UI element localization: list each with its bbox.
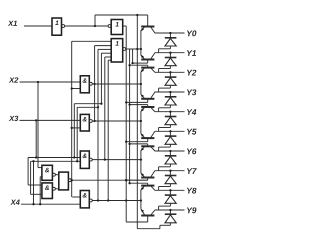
diode VD3 anode jog <box>159 87 171 89</box>
junction <box>125 179 127 181</box>
junction <box>169 189 171 191</box>
NAND G1 <box>80 151 89 168</box>
transistor T10 emitter <box>141 209 145 216</box>
wire Y4 <box>155 111 185 113</box>
wire emitter <box>140 160 142 174</box>
diode VD8 cathode stub <box>169 171 171 176</box>
junction <box>39 203 41 205</box>
wire E1 out <box>55 174 59 176</box>
junction <box>35 156 37 158</box>
wire E2 out <box>55 188 59 190</box>
diode VD9 cathode stub <box>169 190 171 195</box>
wire emitter <box>140 151 142 160</box>
bubble <box>89 158 92 161</box>
junction <box>93 83 95 85</box>
junction <box>128 182 130 184</box>
diode VD6 cathode bar <box>165 135 177 137</box>
buffer F <box>59 172 69 190</box>
transistor T9 emitter arrow <box>141 187 144 191</box>
diode VD8 anode wire <box>169 184 171 187</box>
transistor T8 emitter <box>141 173 145 177</box>
wire rail <box>136 15 138 229</box>
diode VD7 cathode stub <box>169 151 171 156</box>
wire C input <box>101 52 111 54</box>
label Y8 <box>187 188 196 194</box>
junction <box>140 158 142 160</box>
diode VD5 anode drop <box>158 128 160 132</box>
wire G1 in2 <box>31 160 81 162</box>
diode VD3 cathode stub <box>169 72 171 77</box>
inverter A <box>52 18 62 35</box>
junction <box>169 150 171 152</box>
transistor T5 base stub <box>147 105 149 107</box>
junction <box>125 101 127 103</box>
transistor T8 collector <box>150 171 155 178</box>
diode VD6 anode wire <box>169 144 171 147</box>
label Y9 <box>187 207 196 213</box>
wire emitter <box>140 190 142 201</box>
diode VD3 anode wire <box>169 85 171 88</box>
wire emitter <box>140 84 142 94</box>
diode VD4 cathode bar <box>165 96 177 98</box>
transistor T6 collector <box>150 131 155 138</box>
diode VD2 cathode stub <box>169 53 171 58</box>
wire bus3 vertical <box>132 49 134 63</box>
diode VD10 anode drop <box>159 225 161 228</box>
diode VD8 anode jog <box>159 186 171 188</box>
wire C input <box>108 59 111 61</box>
label Y7 <box>187 168 197 174</box>
transistor T7 base stub <box>147 144 149 146</box>
wire riser <box>30 161 32 194</box>
junction <box>71 127 73 129</box>
diode VD10 cathode stub <box>169 210 171 214</box>
diode VD10 anode jog <box>160 224 171 226</box>
label X2 <box>9 77 18 82</box>
diode VD6 anode drop <box>158 147 160 151</box>
junction <box>73 156 75 158</box>
wire emitter <box>140 49 142 55</box>
OR gate C <box>111 39 123 62</box>
transistor T6 base stub <box>147 138 149 142</box>
diode VD2 anode jog <box>159 68 171 70</box>
diode VD1 cathode bar <box>165 37 177 39</box>
junction <box>71 179 73 181</box>
wire G1 in1 <box>28 157 80 159</box>
diode VD2 triangle <box>165 58 176 66</box>
junction <box>125 141 127 143</box>
diode VD5 cathode stub <box>169 112 171 117</box>
label Y4 <box>187 109 196 115</box>
NAND G2 <box>80 191 89 208</box>
transistor T1 collector <box>150 27 155 34</box>
label Y5 <box>187 129 197 135</box>
wire <box>31 193 42 195</box>
diode VD5 anode jog <box>159 127 171 129</box>
transistor T9 emitter <box>141 186 145 190</box>
label X1 <box>8 21 17 26</box>
wire D1 in2 <box>72 88 80 90</box>
wire X2 riser <box>37 82 39 168</box>
bubble <box>89 82 92 85</box>
wire base feed <box>126 179 148 181</box>
junction <box>136 14 138 16</box>
wire bracket5 <box>107 60 109 200</box>
junction <box>94 25 96 27</box>
transistor T3 emitter <box>141 68 145 72</box>
transistor T10 emitter arrow <box>141 209 144 213</box>
label Y0 <box>187 30 196 36</box>
wire C input <box>98 48 111 50</box>
label X4 <box>10 200 19 205</box>
wire G2 out <box>91 200 140 202</box>
transistor T8 base stub <box>147 178 149 181</box>
diode VD1 anode wire <box>169 46 171 49</box>
junction <box>104 158 106 160</box>
bubble <box>62 25 65 28</box>
wire top rail <box>95 14 148 16</box>
diode VD6 triangle <box>165 137 176 145</box>
junction <box>125 179 127 181</box>
wire C input <box>95 45 112 47</box>
bubble <box>53 187 56 190</box>
diode VD5 triangle <box>165 117 176 125</box>
wire bracket1 <box>94 46 96 121</box>
junction <box>140 83 142 85</box>
diode VD9 triangle <box>165 196 176 204</box>
wire C out <box>126 48 141 50</box>
diode VD9 anode jog <box>159 205 171 207</box>
diode VD8 triangle <box>165 176 176 184</box>
diode VD3 cathode bar <box>165 76 177 78</box>
junction <box>169 209 171 211</box>
junction <box>169 91 171 93</box>
NAND D2 <box>80 114 89 131</box>
transistor T7 emitter <box>141 146 145 150</box>
junction <box>140 48 142 50</box>
wire <box>28 184 42 186</box>
transistor T1 emitter arrow <box>141 28 144 32</box>
wire X2 <box>20 81 81 83</box>
wire bracket2 <box>97 49 99 200</box>
diode VD8 anode drop <box>158 187 160 191</box>
diode VD1 cathode stub <box>169 33 171 38</box>
label Y6 <box>187 148 197 154</box>
wire Y2 <box>155 71 185 73</box>
transistor T2 base bar <box>141 59 154 61</box>
transistor T4 emitter <box>141 94 145 98</box>
wire B out <box>123 25 127 27</box>
wire A out <box>65 25 108 27</box>
transistor T10 emitter wire <box>140 201 142 209</box>
junction <box>71 87 73 89</box>
junction <box>169 130 171 132</box>
transistor T6 emitter <box>141 134 145 138</box>
wire T1 emitter <box>140 30 142 49</box>
wire X4 <box>21 203 80 205</box>
diode VD5 anode wire <box>169 125 171 128</box>
diode VD10 anode wire <box>169 223 171 226</box>
wire C in1 <box>72 40 112 42</box>
diode VD1 anode drop <box>158 49 160 53</box>
diode VD1 anode jog <box>159 48 171 50</box>
wire E1in2 riser <box>39 177 41 204</box>
diode VD2 anode drop <box>158 69 160 73</box>
wire F out / T8 base <box>70 179 148 181</box>
wire <box>38 167 42 169</box>
wire D1 out <box>91 83 140 85</box>
wire D2 out <box>91 120 140 122</box>
wire Y9 <box>155 209 185 211</box>
diode VD7 anode jog <box>159 166 171 168</box>
diode VD10 cathode bar <box>165 213 177 215</box>
wire bus2 vertical <box>129 49 131 183</box>
diode VD7 triangle <box>165 156 176 164</box>
label X3 <box>9 116 18 121</box>
transistor T7 emitter arrow <box>141 148 144 152</box>
diode VD2 cathode bar <box>165 57 177 59</box>
inverter B <box>111 20 123 35</box>
wire base feed <box>126 141 148 143</box>
transistor T3 base bar <box>141 67 154 69</box>
junction <box>169 52 171 54</box>
diode VD6 anode jog <box>159 146 171 148</box>
wire Y0 <box>155 32 185 34</box>
wire X1 lead <box>24 25 52 27</box>
junction <box>140 199 142 201</box>
junction <box>100 103 102 105</box>
junction <box>97 199 99 201</box>
wire X4 riser <box>33 161 35 204</box>
bubble <box>108 25 111 28</box>
diode VD2 anode wire <box>169 66 171 69</box>
transistor T1 base stub <box>147 15 149 27</box>
wire Y6 <box>155 150 185 152</box>
transistor T1 base bar <box>141 26 154 28</box>
transistor T5 collector <box>150 107 155 112</box>
junction <box>32 203 34 205</box>
wire X3 riser <box>35 120 37 157</box>
diode VD5 cathode bar <box>165 116 177 118</box>
transistor T2 collector <box>150 53 155 60</box>
wire G1 out <box>91 159 140 161</box>
transistor T3 emitter arrow <box>141 69 144 73</box>
transistor T10 base bar <box>141 215 154 217</box>
NAND E2 <box>42 183 53 199</box>
diode VD3 triangle <box>165 78 176 86</box>
wire bracket4 <box>104 57 106 160</box>
transistor T5 emitter arrow <box>141 108 144 112</box>
diode VD9 cathode bar <box>165 194 177 196</box>
junction <box>93 120 95 122</box>
diode VD4 anode jog <box>159 107 171 109</box>
diode VD8 cathode bar <box>165 175 177 177</box>
transistor T2 emitter arrow <box>141 55 144 59</box>
diode VD10 triangle <box>165 215 176 223</box>
wire G2 in1 <box>72 196 80 198</box>
wire Y1 <box>155 52 185 54</box>
diode VD7 anode drop <box>158 167 160 171</box>
wire C input <box>105 56 111 58</box>
wire <box>40 176 42 178</box>
transistor T5 emitter <box>141 107 145 111</box>
wire base feed <box>130 143 148 145</box>
diode VD3 anode drop <box>158 88 160 92</box>
wire bus1 vertical <box>125 26 127 222</box>
junction <box>169 32 171 34</box>
transistor T3 base stub <box>147 65 149 67</box>
wire T10 base feed <box>126 221 148 223</box>
junction <box>97 106 99 108</box>
junction <box>169 111 171 113</box>
transistor T4 emitter arrow <box>141 94 144 98</box>
transistor T8 emitter arrow <box>141 173 144 177</box>
transistor T5 base bar <box>141 106 154 108</box>
wire emitter <box>140 72 142 84</box>
label Y3 <box>187 89 196 95</box>
wire Y7 <box>155 170 185 172</box>
transistor T2 base stub <box>147 60 149 64</box>
NAND D1 <box>80 76 89 93</box>
junction <box>107 199 109 201</box>
diode VD4 anode wire <box>169 105 171 108</box>
wire F net vertical <box>71 41 73 197</box>
diode VD4 cathode stub <box>169 92 171 97</box>
transistor T4 collector <box>150 92 155 99</box>
wire Y5 <box>155 130 185 132</box>
junction <box>169 170 171 172</box>
transistor T6 emitter arrow <box>141 133 144 137</box>
transistor T8 base bar <box>141 177 154 179</box>
transistor T7 base bar <box>141 145 154 147</box>
diode VD6 cathode stub <box>169 131 171 136</box>
transistor T6 base bar <box>141 137 154 139</box>
junction <box>37 81 39 83</box>
diode VD9 anode wire <box>169 203 171 206</box>
transistor T10 base stub <box>147 216 149 223</box>
diode VD7 cathode bar <box>165 155 177 157</box>
wire bracket3 <box>100 53 102 103</box>
transistor T9 base stub <box>147 183 149 185</box>
bubble <box>53 173 56 176</box>
wire up <box>94 15 96 26</box>
bubble <box>89 199 92 202</box>
wire emitter <box>140 121 142 134</box>
wire <box>73 104 75 158</box>
junction <box>125 199 127 201</box>
bubble <box>69 179 72 182</box>
wire <box>76 107 78 161</box>
junction <box>128 103 130 105</box>
wire base feed <box>130 182 148 184</box>
junction <box>140 120 142 122</box>
wire base feed <box>126 101 148 103</box>
wire riser <box>27 158 29 186</box>
transistor T7 collector <box>150 146 155 151</box>
transistor T4 base stub <box>147 99 149 103</box>
wire mid link2 <box>77 106 98 108</box>
junction <box>136 48 138 50</box>
junction <box>128 143 130 145</box>
diode VD1 triangle <box>165 38 176 46</box>
wire D2 in2 <box>72 127 80 129</box>
wire mid link <box>74 103 101 105</box>
wire emitter <box>140 111 142 121</box>
NAND E1 <box>42 165 53 180</box>
wire X3 <box>20 119 81 121</box>
transistor T10 collector <box>150 210 155 216</box>
label Y1 <box>187 50 196 56</box>
transistor T9 base bar <box>141 185 154 187</box>
transistor T1 emitter <box>141 27 145 31</box>
junction <box>131 62 133 64</box>
junction <box>128 64 130 66</box>
label Y2 <box>187 70 196 76</box>
bubble <box>89 120 92 123</box>
wire bottom return <box>137 228 160 230</box>
transistor T2 emitter <box>141 55 145 59</box>
wire T3 base feed <box>130 64 148 66</box>
diode VD4 triangle <box>165 97 176 105</box>
transistor T9 collector <box>150 186 155 191</box>
wire base feed <box>130 104 148 106</box>
junction <box>169 71 171 73</box>
junction <box>35 119 37 121</box>
wire T2 base feed <box>133 62 148 64</box>
transistor T3 collector <box>150 68 155 73</box>
junction <box>32 160 34 162</box>
wire Y8 <box>155 189 185 191</box>
wire Y3 <box>155 91 185 93</box>
diode VD4 anode drop <box>158 108 160 112</box>
diode VD7 anode wire <box>169 164 171 167</box>
transistor T4 base bar <box>141 98 154 100</box>
bubble <box>123 48 126 51</box>
junction <box>76 160 78 162</box>
diode VD9 anode drop <box>158 206 160 210</box>
